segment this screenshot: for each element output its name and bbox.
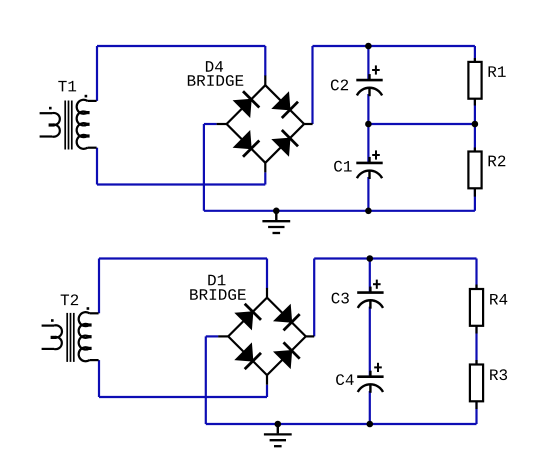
wire R1 top feed	[474, 46, 476, 62]
wire left vertical to ground rail	[203, 124, 205, 211]
label T1	[58, 81, 76, 92]
wire R4 to R3 link	[475, 326, 477, 365]
wire bridge AC1 stub down	[264, 46, 266, 76]
transformer T2	[42, 307, 99, 362]
ground bottom ground	[264, 424, 292, 446]
capacitor C2	[356, 65, 382, 96]
wire bridge AC2 stub up	[264, 173, 266, 185]
wire bridge D1 AC1 stub down	[266, 259, 268, 289]
wire T2 bottom rail to bridge AC2	[99, 396, 267, 398]
wire C2 to C1 link	[367, 94, 369, 163]
wire R4 top feed	[475, 259, 477, 290]
wire ground rail	[204, 210, 475, 212]
wire middle rail C1/C2 junction to R1/R2 junction	[368, 123, 475, 125]
node C2 top junction	[365, 43, 372, 50]
wire C1 to ground rail	[367, 177, 369, 211]
node C4 bottom junction	[367, 421, 374, 428]
wire R1 bottom to mid node	[474, 98, 476, 152]
label D1	[208, 275, 225, 286]
label R2	[489, 155, 506, 166]
node mid rail left junction	[365, 121, 372, 128]
bridge rectifier D1	[218, 288, 314, 385]
capacitor C1	[356, 150, 382, 179]
ground top ground	[262, 211, 290, 233]
wire R3 bottom to rail	[475, 401, 477, 424]
resistor R2	[468, 152, 481, 189]
R3 pins	[475, 360, 477, 365]
label C1	[334, 161, 352, 172]
wire bridge D1 DC+ vertical to top rail	[313, 259, 315, 337]
resistor R3	[470, 365, 483, 402]
wire bridge DC+ vertical to top rail	[311, 46, 313, 124]
resistor R4	[470, 289, 483, 326]
node mid rail right junction	[472, 121, 479, 128]
wire C2 top feed	[367, 46, 369, 80]
label D4	[206, 61, 223, 72]
node ground junction	[273, 208, 280, 215]
node bottom ground junction	[275, 421, 282, 428]
label T2	[61, 294, 78, 305]
wire T2 secondary top to top rail	[98, 259, 100, 314]
label D1 BRIDGE	[190, 289, 245, 300]
wire top rail left segment (T1 top to bridge AC1)	[97, 45, 265, 47]
wire C4 to bottom rail	[369, 391, 371, 424]
resistor R1	[468, 62, 481, 99]
wire T1 secondary top to top rail	[96, 46, 98, 101]
node C1 bottom junction	[365, 208, 372, 215]
capacitor C3	[357, 280, 383, 309]
wire T1 bottom rail to bridge AC2	[97, 183, 265, 185]
wire bridge D1 AC2 stub up	[266, 385, 268, 397]
wire left vertical to bottom ground rail	[205, 336, 207, 424]
label R1	[489, 66, 506, 77]
R1 pins	[474, 58, 476, 62]
label R4	[490, 294, 507, 305]
label R3	[490, 369, 507, 380]
capacitor C4	[357, 363, 383, 393]
wire bridge D1 DC- to left corner	[206, 335, 219, 337]
wire C3 to C4 link	[369, 307, 371, 377]
label C2	[331, 79, 348, 90]
label D4 BRIDGE	[188, 75, 243, 86]
transformer T1	[40, 95, 97, 150]
wire T2 secondary bottom down	[98, 360, 100, 397]
label C3	[332, 293, 349, 304]
wire top rail right segment (bridge DC+ to R1)	[313, 45, 475, 47]
bridge rectifier D4	[217, 76, 313, 173]
node C3 top junction	[367, 255, 374, 262]
R2 pins	[474, 148, 476, 152]
wire bridge DC- to left corner	[204, 123, 217, 125]
wire top rail right segment (bridge DC+ to R4)	[314, 257, 476, 259]
R4 pins	[475, 285, 477, 290]
wire C3 top feed	[369, 259, 371, 293]
wire T1 secondary bottom down	[96, 148, 98, 185]
wire bottom ground rail	[206, 423, 477, 425]
wire top rail left segment (T2 top to bridge AC1)	[99, 257, 267, 259]
wire R2 bottom to ground rail	[474, 188, 476, 211]
label C4	[336, 374, 354, 385]
